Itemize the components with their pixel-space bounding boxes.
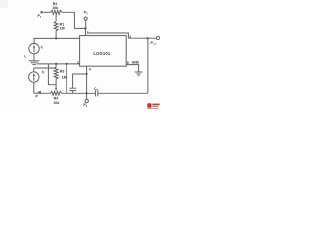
- svg-text:5: 5: [87, 31, 89, 35]
- svg-text:10k: 10k: [53, 101, 59, 105]
- svg-text:4: 4: [89, 67, 91, 71]
- svg-text:10k: 10k: [52, 6, 58, 10]
- svg-text:1M: 1M: [60, 27, 65, 31]
- svg-text:1M: 1M: [62, 75, 67, 79]
- svg-text:1: 1: [77, 60, 79, 64]
- svg-text:2: 2: [129, 35, 131, 39]
- svg-text:LOG101: LOG101: [93, 51, 110, 56]
- svg-text:GND: GND: [132, 61, 140, 65]
- svg-text:R4: R4: [54, 97, 59, 101]
- svg-text:6: 6: [127, 61, 129, 65]
- svg-text:R3: R3: [60, 70, 65, 74]
